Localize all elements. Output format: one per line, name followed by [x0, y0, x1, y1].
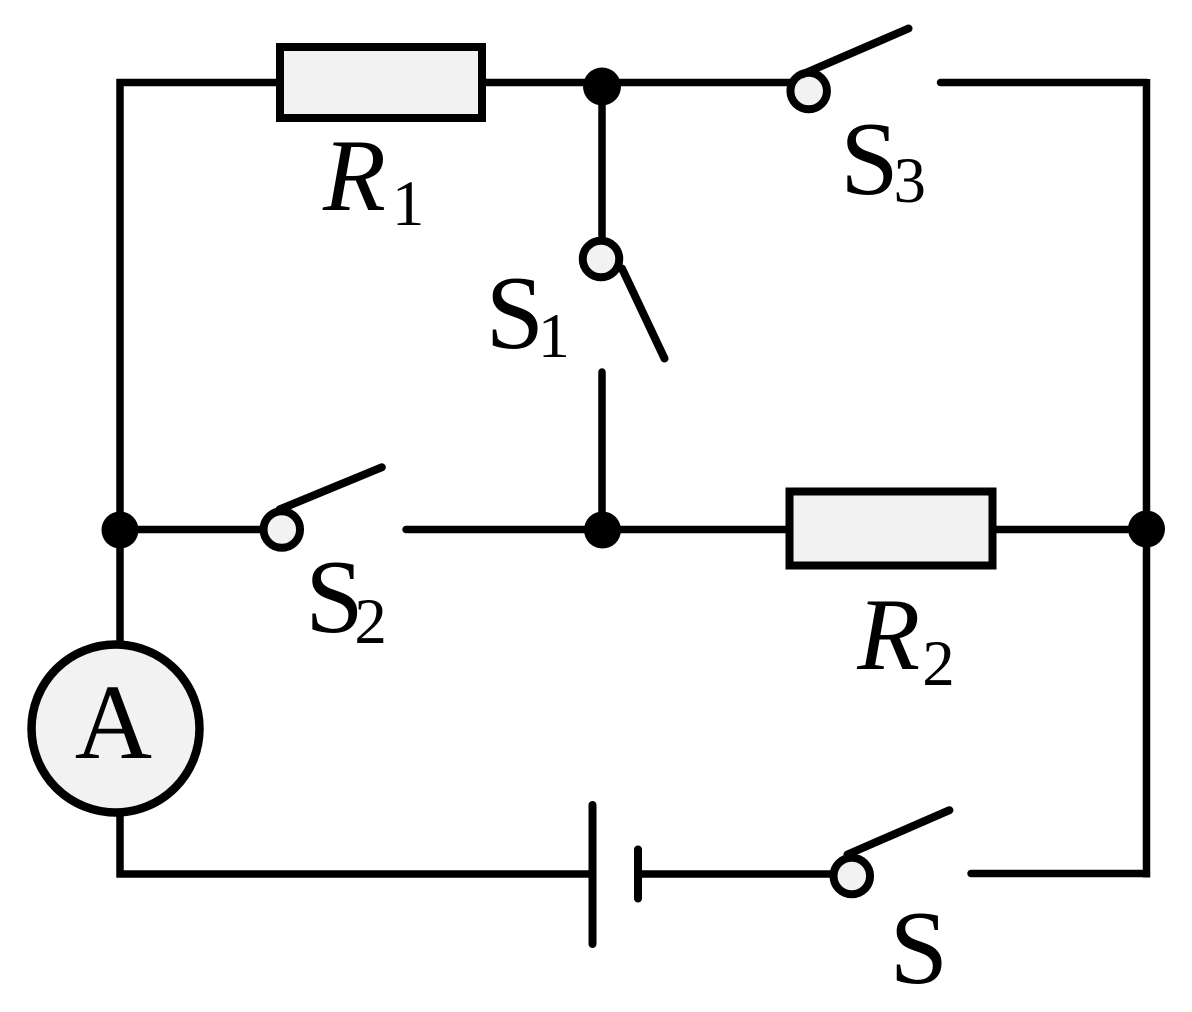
switch S2 contact circle [264, 511, 301, 548]
node left (junction of left wire and middle wire) [102, 512, 139, 549]
wire top between R1 and node [483, 79, 604, 87]
battery long plate [589, 805, 597, 944]
wire middle from center node to R2 [602, 526, 793, 534]
switch S3 contact circle [790, 73, 827, 110]
switch S contact circle [834, 858, 871, 895]
switch S1 contact circle [583, 241, 620, 278]
svg-text:A: A [75, 664, 152, 782]
wire S1 branch lower vertical [598, 372, 606, 532]
wire middle from R2 to right node [993, 526, 1147, 534]
wire bottom from battery to switch S [638, 870, 834, 878]
resistor R1 [280, 47, 482, 118]
wire left vertical upper (top corner down to ammeter) [116, 79, 124, 648]
switch S2 blade [280, 467, 382, 509]
node right (junction of right wire and middle wire) [1128, 511, 1165, 548]
wire middle left node to S2 [120, 526, 264, 534]
svg-text:1: 1 [538, 300, 570, 371]
wire S1 branch upper vertical [598, 83, 606, 241]
resistor R2 [790, 492, 993, 566]
svg-text:S: S [840, 100, 898, 217]
wire top-right from S3 gap to right corner [941, 79, 1147, 87]
svg-text:S: S [486, 254, 544, 371]
svg-text:2: 2 [922, 628, 955, 700]
svg-text:S: S [890, 889, 948, 1006]
wire bottom from left corner to battery [117, 870, 591, 878]
wire middle from S2 gap to center node [406, 526, 604, 534]
wire bottom from S gap to right corner [971, 870, 1147, 878]
node middle (junction of S1 branch and middle wire) [584, 512, 621, 549]
ammeter A [32, 645, 200, 813]
switch S1 blade [622, 269, 665, 359]
wire top from node to switch S3 [602, 79, 793, 87]
switch S blade [848, 810, 950, 854]
svg-text:R: R [856, 578, 920, 692]
wire right vertical [1143, 79, 1151, 878]
switch S3 blade [802, 29, 909, 75]
svg-text:2: 2 [354, 586, 387, 658]
node top (junction of R1 wire and S1 branch) [583, 68, 621, 106]
svg-text:R: R [322, 119, 386, 233]
battery short plate [634, 850, 642, 899]
svg-text:3: 3 [894, 145, 927, 217]
wire top-left horizontal (left corner to R1) [117, 79, 281, 87]
wire left vertical lower (ammeter to bottom corner) [116, 810, 124, 878]
svg-text:1: 1 [392, 168, 425, 240]
